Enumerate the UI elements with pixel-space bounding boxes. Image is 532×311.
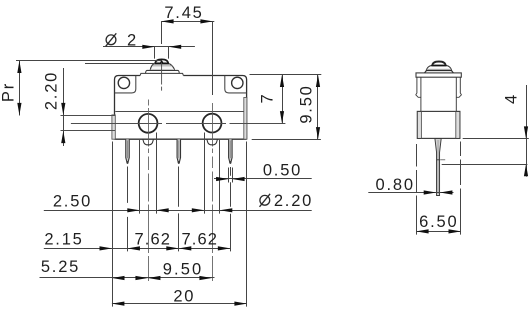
mounting ear left [115, 76, 136, 93]
0.50 arrow left (outside) [216, 177, 229, 181]
9.50 right arrow down [316, 127, 320, 139]
diameter-2 extension lines [155, 47, 169, 59]
side plunger cap stroke [432, 62, 445, 65]
pin1 center extension line [127, 167, 129, 252]
6.50 arrow left [416, 229, 429, 233]
svg-text:4: 4 [503, 93, 521, 104]
plunger top reference line [16, 60, 162, 62]
pin3 edge extension lines [229, 168, 233, 183]
right stub extension lines [205, 133, 220, 214]
20 arrow left [112, 302, 125, 306]
2.50 arrow left (outside) [127, 208, 140, 212]
svg-text:20: 20 [173, 287, 195, 305]
20 arrow right [234, 302, 247, 306]
pin 1 (left solder pin) [126, 139, 130, 163]
side terminal circle left [139, 114, 158, 133]
terminal stub under left circle [143, 140, 154, 145]
svg-text:7: 7 [259, 93, 277, 104]
plunger centerline [161, 63, 163, 91]
2.50 arrow right (outside) [156, 208, 169, 212]
dimension 9.50 right line [317, 75, 319, 140]
7.62a arrow left [127, 246, 140, 250]
6.50 extension lines [417, 142, 461, 235]
7 arrow up [280, 75, 284, 87]
body bottom right extension line [252, 139, 321, 141]
dimension row line 2.15 / 7.62 / 7.62 [44, 248, 231, 250]
7.45 arrow left [161, 19, 174, 23]
side clip right foot [456, 93, 461, 97]
dimension diameter-2 line [103, 46, 195, 48]
mounting hole right [232, 77, 243, 88]
0.50 arrow right (outside) [232, 177, 245, 181]
side plunger band shade line [427, 68, 452, 70]
label dia 2.20 [260, 194, 271, 207]
7 arrow down [280, 111, 284, 123]
dimension row line 5.25 / 9.50 [40, 277, 215, 279]
body inner horizontal line [115, 111, 244, 113]
dimension row line 2.50 / dia 2.20 [44, 210, 312, 212]
pin wire streaks [128, 141, 231, 159]
plunger tip cap [155, 59, 168, 63]
4 extension top line [463, 138, 529, 140]
pin 3 (right solder pin) [229, 139, 233, 163]
body right extension line [246, 142, 248, 307]
arrowheads front view [17, 19, 320, 305]
4 arrow bottom (outside, pointing up) [524, 164, 528, 176]
dimension 7.45 line [161, 21, 214, 23]
left lug top edge [61, 115, 116, 117]
side view plunger outline [425, 61, 454, 73]
side clip left foot [416, 93, 421, 97]
mounting hole left [118, 77, 129, 88]
pin2 center extension line [178, 167, 180, 252]
7.62b arrow right [218, 246, 231, 250]
6.50 arrow right [449, 229, 462, 233]
dimension 0.80 line [368, 192, 453, 194]
svg-text:7.45: 7.45 [164, 4, 203, 22]
svg-text:9.50: 9.50 [163, 260, 204, 278]
svg-text:2.20: 2.20 [43, 71, 61, 110]
side view lid [416, 73, 461, 77]
plunger ring base [146, 70, 180, 73]
pin 2 (middle solder pin) [177, 139, 181, 163]
plunger released reference line [85, 63, 155, 65]
side plunger band line [426, 69, 452, 71]
svg-text:2.50: 2.50 [53, 193, 92, 211]
svg-text:0.80: 0.80 [376, 176, 415, 194]
2.20 arrow top (outside, pointing down) [61, 103, 65, 115]
svg-text:0.50: 0.50 [263, 162, 302, 180]
dia2 arrow right (outside, pointing left) [169, 45, 182, 49]
dimension texts front view [0, 4, 316, 305]
switch body outline (front view) [115, 76, 247, 140]
dimension 2.20 line [63, 68, 65, 146]
side clip left [417, 77, 421, 111]
side clip right [456, 77, 460, 111]
side plunger cap base line [431, 65, 446, 67]
side block inner walls [418, 112, 421, 138]
right side strip terminal [244, 98, 247, 140]
0.80 arrow left (outside) [424, 190, 437, 194]
svg-text:6.50: 6.50 [419, 213, 458, 231]
plunger dome band [150, 63, 174, 70]
dimension 6.50 line [416, 231, 461, 233]
dia2 arrow left (outside, pointing right) [142, 45, 155, 49]
left side strip terminal [112, 115, 115, 139]
label dia 2 [106, 33, 117, 46]
plunger platform [140, 73, 183, 75]
7.45 extension right [212, 22, 214, 96]
side lower block [417, 111, 460, 138]
terminal stub under right circle [207, 140, 218, 145]
5.25 arrow left [112, 276, 125, 280]
dimension Pr line [19, 61, 21, 116]
7.45 arrow right [200, 19, 213, 23]
terminal mid line across body [71, 123, 286, 125]
svg-text:7.62: 7.62 [182, 231, 219, 249]
dia 2.20 arrow right (outside) [220, 208, 233, 212]
left lug bottom edge [61, 130, 116, 132]
left outer extension line [112, 142, 114, 307]
2.15 arrow left (outside) [100, 246, 113, 250]
side pin crimp notch [436, 159, 439, 161]
4 extension bottom line [442, 164, 528, 166]
svg-text:5.25: 5.25 [41, 258, 80, 276]
7.45 extension left [161, 22, 163, 45]
0.80 arrow right (outside) [440, 190, 453, 194]
svg-text:7.62: 7.62 [135, 231, 172, 249]
svg-text:2.15: 2.15 [44, 231, 83, 249]
dimension 4 line [526, 85, 528, 177]
dimension 7 line [282, 75, 284, 124]
side pin [435, 139, 441, 196]
dimension 0.50 line [214, 178, 312, 180]
pin3 center extension line [230, 167, 232, 251]
svg-text:9.50: 9.50 [298, 84, 316, 123]
svg-text:Pr: Pr [0, 82, 18, 102]
4 arrow top (outside, pointing down) [524, 126, 528, 138]
svg-text:2.20: 2.20 [274, 192, 313, 210]
dia 2.20 arrow left (outside) [192, 208, 205, 212]
mounting ear right [225, 76, 247, 93]
body top right extension line [250, 74, 322, 76]
dimension row line 20 [112, 303, 247, 305]
left circle vertical centerline [148, 100, 150, 282]
left stub extension lines [140, 133, 157, 214]
9.50 bottom arrow right [199, 276, 212, 280]
Pr arrow up [17, 61, 21, 73]
plunger apex pointer [160, 60, 164, 64]
Pr arrow down [17, 103, 21, 115]
2.20 arrow bottom (outside, pointing up) [61, 131, 65, 143]
9.50 right arrow up [316, 75, 320, 87]
7.62 bowtie arrows at pin2 [166, 246, 179, 250]
side terminal circle right [203, 114, 222, 133]
5.25 arrow right / 9.50 bowtie [135, 276, 148, 280]
svg-text:2: 2 [127, 31, 138, 49]
right circle vertical centerline [212, 103, 214, 281]
